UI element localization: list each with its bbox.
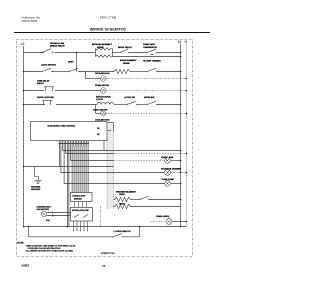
time delay relay switch (37, 80, 54, 91)
wire row F branch (96, 105, 101, 114)
svg-text:2600W: 2600W (123, 62, 130, 65)
rail L1 (23, 46, 25, 227)
lamp DS2 storage drawer light (161, 168, 182, 176)
electronic oven control box U1 (31, 122, 108, 141)
lamp DS1 oven lamp (161, 156, 174, 163)
door switch branch (29, 227, 113, 237)
svg-text:LOCK SW MTR: LOCK SW MTR (41, 64, 56, 67)
rail L2 (180, 44, 182, 227)
warmer element row 2 (114, 203, 131, 209)
wire (113, 52, 120, 54)
svg-text:COOLING FAN: COOLING FAN (95, 119, 110, 122)
wire vertical to row B (76, 53, 78, 72)
bake relay switch (68, 61, 80, 73)
node junction (76, 52, 78, 54)
bottom bus wire (23, 226, 25, 228)
door lock switch (37, 96, 54, 105)
svg-text:THERMOSTAT: THERMOSTAT (143, 46, 158, 49)
svg-text:- ALL WIRING SHOWN WITH OVEN D: - ALL WIRING SHOWN WITH OVEN DOOR CLOSED (25, 250, 74, 253)
warmer element row 1 (114, 190, 137, 201)
door switch (112, 230, 131, 238)
svg-text:BREAK RELAY: BREAK RELAY (50, 45, 65, 48)
oven light bottom row (150, 215, 172, 225)
warmer switch (139, 196, 149, 200)
ribbon cable (107, 124, 114, 209)
convection fan motor M4 (37, 205, 51, 222)
oven vent thermostat switch (143, 43, 158, 54)
svg-text:OVEN LIGHT: OVEN LIGHT (156, 215, 169, 218)
wire row E (23, 104, 25, 106)
svg-text:LATCH SW: LATCH SW (124, 96, 135, 99)
relay switch K1 (double line break relay) (41, 42, 65, 53)
oven lamp 2 row (64, 183, 164, 185)
wire mid rows right of ribbon (63, 150, 181, 152)
oven lamp row (71, 160, 165, 162)
wire to L2 (157, 52, 181, 54)
svg-text:CONV MOTOR: CONV MOTOR (93, 108, 108, 111)
svg-text:LATCH: LATCH (96, 98, 103, 101)
svg-text:12: 12 (102, 264, 106, 268)
svg-text:N: N (185, 41, 187, 44)
svg-text:ELECTRONIC OVEN CONTROL: ELECTRONIC OVEN CONTROL (48, 124, 77, 127)
schematic dash-dot border (17, 40, 193, 257)
svg-text:WIRING SCHEMATIC: WIRING SCHEMATIC (90, 27, 127, 31)
svg-text:DOOR LOCK: DOOR LOCK (73, 195, 86, 198)
svg-text:MOTOR: MOTOR (74, 198, 82, 201)
switch inside 2 (83, 215, 88, 218)
wire (129, 52, 146, 54)
svg-text:CONVECTION: CONVECTION (37, 205, 51, 208)
broiler element (double zigzag) (92, 43, 113, 57)
wire row B (24, 71, 42, 73)
svg-text:⊥ DOOR SWITCH: ⊥ DOOR SWITCH (113, 230, 131, 233)
door lock switch box (71, 208, 93, 222)
wire from box to ribbon (104, 123, 114, 151)
svg-text:FEFL77AB: FEFL77AB (100, 16, 116, 20)
svg-text:FAN MOTOR: FAN MOTOR (37, 208, 50, 211)
harness verticals from comb (59, 146, 88, 227)
svg-text:CODE AND GAUGE INFORMATION: CODE AND GAUGE INFORMATION (28, 247, 61, 250)
ground branch (31, 167, 42, 192)
svg-text:DOOR LOCK SW: DOOR LOCK SW (37, 96, 54, 99)
dashed link line (100, 206, 102, 227)
pins between boxes (75, 202, 87, 208)
svg-text:BAKE ELEMENT: BAKE ELEMENT (120, 59, 137, 62)
wire dashed to N (106, 90, 186, 92)
lock switch motor (41, 64, 56, 73)
wire row C branch (86, 72, 101, 79)
wire lower broil branch to L2 (113, 56, 181, 58)
motor door latch coil (96, 96, 114, 105)
wire row D (23, 90, 25, 92)
svg-text:750W: 750W (119, 193, 124, 196)
rail N (186, 44, 188, 227)
svg-text:3195377-00: 3195377-00 (101, 252, 115, 255)
wire (55, 52, 95, 54)
svg-text:BROIL RELAY: BROIL RELAY (118, 46, 132, 49)
svg-text:OVEN VENT: OVEN VENT (143, 43, 156, 46)
pins below box (74, 221, 88, 231)
svg-text:DOOR SW: DOOR SW (144, 96, 154, 99)
svg-text:RELAY: RELAY (37, 82, 44, 85)
svg-text:BROILER ELEMENT: BROILER ELEMENT (92, 43, 113, 46)
convection motor M3 (93, 108, 108, 116)
svg-text:GROUND: GROUND (31, 188, 41, 191)
broil relay switch (118, 46, 132, 53)
svg-text:DOOR LOCK SW: DOOR LOCK SW (72, 209, 89, 212)
svg-text:04/02: 04/02 (22, 264, 30, 268)
switch inside 1 (74, 215, 79, 218)
svg-text:MOTOR DOOR: MOTOR DOOR (96, 96, 111, 99)
latch switch 1 (124, 96, 138, 105)
bake element zigzag (114, 59, 137, 74)
svg-text:750W: 750W (119, 203, 124, 206)
connector comb P3 (59, 141, 90, 146)
svg-text:HI-LIMIT THERMO: HI-LIMIT THERMO (143, 60, 161, 63)
wire dashed to N (106, 78, 186, 80)
svg-text:COOLING FAN: COOLING FAN (95, 72, 110, 75)
header rule (14, 32, 210, 34)
svg-text:WARMER ELEMENT: WARMER ELEMENT (116, 190, 137, 193)
high limit thermostat switch (143, 60, 161, 73)
svg-text:DPDT: DPDT (68, 61, 74, 64)
storage drawer light row (61, 172, 164, 174)
svg-text:NOTE:: NOTE: (17, 241, 24, 244)
svg-text:5995376908: 5995376908 (22, 19, 38, 23)
cooling fan motor M1 (95, 72, 110, 81)
latch switch 2 (144, 96, 158, 105)
wire L1 to harness y167 (23, 166, 25, 168)
oven motor M2 (95, 84, 110, 93)
lamp DS3 oven lamp (162, 178, 175, 187)
door lock motor box (71, 193, 93, 202)
wire row A (24, 52, 45, 54)
svg-text:OVEN MOTOR: OVEN MOTOR (95, 84, 110, 87)
svg-text:STORAGE DRAWER: STORAGE DRAWER (161, 168, 182, 171)
